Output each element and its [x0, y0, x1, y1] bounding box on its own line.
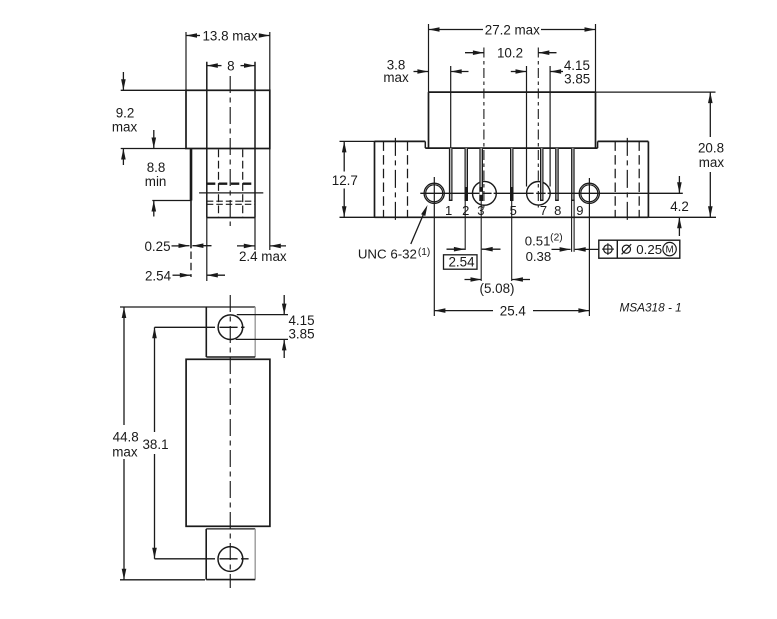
top mounting hole	[215, 315, 243, 340]
svg-text:2.54: 2.54	[145, 269, 172, 284]
hole horizontal centerline (front view)	[420, 192, 683, 195]
dimension 20.8 max	[596, 92, 724, 217]
svg-text:0.51: 0.51	[525, 233, 551, 248]
bottom mounting tab	[206, 529, 255, 580]
svg-text:0.25: 0.25	[636, 242, 662, 257]
svg-text:(2): (2)	[550, 233, 562, 244]
lead 2	[465, 148, 469, 201]
svg-text:9: 9	[576, 203, 583, 218]
feature control frame (position, dia 0.25, M)	[599, 240, 680, 258]
svg-text:0.38: 0.38	[526, 249, 552, 264]
hole 2	[473, 48, 497, 208]
svg-text:3: 3	[477, 203, 484, 218]
top mounting tab	[206, 307, 255, 357]
front view cap body	[425, 92, 597, 148]
side view cap body	[186, 90, 270, 148]
dimension 2.54 (boxed)	[444, 247, 501, 270]
svg-text:(1): (1)	[418, 247, 430, 258]
dimension 8 (side view)	[207, 58, 255, 217]
svg-text:2.4 max: 2.4 max	[239, 249, 287, 264]
front view flange outline	[375, 141, 649, 217]
svg-text:9.2: 9.2	[116, 105, 135, 120]
dimension 38.1	[142, 327, 248, 559]
svg-text:10.2: 10.2	[497, 45, 523, 60]
lead 2 extension line	[464, 201, 466, 250]
hidden hole top edge (thick dashed)	[207, 183, 255, 185]
dimension 4.2	[670, 176, 689, 236]
hidden lead columns (dashed)	[219, 150, 243, 218]
svg-text:UNC 6-32: UNC 6-32	[358, 246, 417, 261]
svg-text:8: 8	[554, 203, 561, 218]
svg-text:25.4: 25.4	[500, 304, 527, 319]
svg-text:0.25: 0.25	[144, 239, 170, 254]
svg-text:20.8: 20.8	[698, 141, 724, 156]
flange end hidden edges (dashed)	[384, 141, 640, 217]
dimension 44.8 max	[112, 307, 206, 580]
svg-text:38.1: 38.1	[142, 437, 168, 452]
lead 5 extension line	[511, 201, 513, 281]
svg-text:max: max	[112, 445, 138, 460]
dimension 9.2 max	[112, 72, 186, 165]
dimension 0.25	[144, 239, 211, 254]
dimension 2.4 max	[237, 149, 287, 264]
dimension 25.4	[434, 304, 589, 319]
side view lead (thick)	[190, 149, 193, 201]
lead 8	[555, 148, 559, 201]
svg-text:8: 8	[227, 58, 234, 73]
side view lower block	[207, 217, 255, 219]
dimension 4.15 / 3.85 (hole diameter)	[236, 295, 315, 358]
dimension (5.08)	[465, 277, 531, 296]
lead 9	[571, 148, 575, 201]
svg-text:27.2 max: 27.2 max	[485, 22, 540, 37]
pin numbers	[445, 203, 584, 218]
dimension 13.8 max	[186, 28, 270, 90]
lead 3 extension line	[480, 201, 482, 281]
svg-text:max: max	[699, 155, 725, 170]
dimension 0.51 / 0.38 (lead width)	[525, 233, 599, 265]
hole 3	[527, 48, 551, 208]
lead 1	[449, 148, 453, 201]
svg-text:(5.08): (5.08)	[480, 281, 515, 296]
dimension 27.2 max	[429, 22, 596, 92]
svg-text:4.2: 4.2	[670, 199, 689, 214]
svg-text:MSA318 - 1: MSA318 - 1	[619, 300, 681, 314]
UNC 6-32 thread callout	[358, 205, 430, 261]
svg-text:max: max	[383, 70, 409, 85]
svg-text:max: max	[112, 119, 138, 134]
svg-text:min: min	[145, 174, 167, 189]
dimension 12.7	[332, 141, 375, 217]
lead 7	[540, 148, 544, 201]
screw hole 4 (UNC 6-32)	[579, 178, 599, 316]
bottom mounting hole	[215, 547, 243, 572]
lead 1 extension line	[450, 66, 452, 148]
svg-text:5: 5	[510, 203, 517, 218]
dimension 2.54 (side view)	[145, 218, 225, 284]
side view vertical centerline	[229, 76, 231, 226]
hole horizontal centerline (side view)	[199, 192, 263, 194]
dimension 3.8 max	[383, 58, 468, 85]
dimension 10.2	[465, 45, 557, 60]
drawing number MSA318 - 1	[619, 300, 681, 314]
lead 3	[479, 148, 483, 201]
svg-text:2: 2	[462, 203, 469, 218]
svg-text:44.8: 44.8	[113, 429, 139, 444]
hidden lead-end and hole-bottom lines (dashed)	[207, 201, 255, 204]
svg-text:13.8 max: 13.8 max	[202, 28, 257, 43]
bottom view vertical centerline	[229, 295, 231, 588]
svg-text:M: M	[666, 245, 674, 256]
svg-text:2.54: 2.54	[448, 255, 475, 270]
bottom view main body	[186, 359, 270, 526]
flange end centerlines	[395, 138, 627, 221]
dimension 4.15 / 3.85 (front view)	[511, 58, 590, 86]
lead 5	[510, 148, 514, 201]
svg-text:3.85: 3.85	[564, 71, 590, 86]
svg-text:7: 7	[540, 203, 547, 218]
dimension 8.8 min	[145, 130, 192, 217]
svg-text:8.8: 8.8	[147, 160, 166, 175]
svg-text:1: 1	[445, 203, 452, 218]
svg-text:12.7: 12.7	[332, 173, 358, 188]
hole 3 tangent extension lines	[527, 66, 551, 187]
lead 9 extension lines (double)	[572, 201, 575, 252]
svg-text:3.85: 3.85	[288, 327, 314, 342]
lead centerline extension	[190, 201, 192, 278]
screw hole 1 (UNC 6-32)	[424, 177, 444, 316]
